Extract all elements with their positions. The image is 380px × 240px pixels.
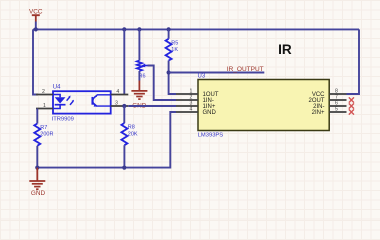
wire U3 VCC pin8 to rail xyxy=(347,29,360,94)
LED light arrows xyxy=(67,97,73,105)
power VCC xyxy=(29,8,43,29)
svg-text:GND: GND xyxy=(203,110,217,116)
no-connect x pin 5 xyxy=(349,109,354,114)
node IR net junction xyxy=(167,70,171,74)
svg-text:R8: R8 xyxy=(128,125,135,131)
wire U4 pin1 to R7 xyxy=(36,109,38,124)
node R8 top junction xyxy=(122,104,126,108)
svg-text:1: 1 xyxy=(43,103,46,109)
text IR title xyxy=(278,42,292,57)
U4 pin 1 xyxy=(36,103,53,109)
svg-text:2: 2 xyxy=(42,89,45,95)
svg-text:3: 3 xyxy=(115,100,118,106)
optocoupler U4 xyxy=(52,85,111,123)
U3 pin 1 xyxy=(176,88,198,94)
node rail junction pin4 riser xyxy=(122,27,126,31)
wire rail to R5 xyxy=(168,29,170,38)
svg-text:20K: 20K xyxy=(128,131,138,137)
wire U4 pin3 to 1IN+ xyxy=(128,105,176,107)
svg-text:5: 5 xyxy=(335,106,338,112)
svg-text:200R: 200R xyxy=(40,132,53,138)
svg-text:1K: 1K xyxy=(171,47,178,53)
wire rail to U4 pin4 xyxy=(123,29,125,94)
LED inside U4 xyxy=(53,95,60,98)
resistor R8 xyxy=(121,106,138,145)
wire R6 to GND xyxy=(138,71,140,81)
U3 pin 4 xyxy=(176,106,198,112)
U3 pin 2 xyxy=(176,94,198,100)
net label IR_OUTPUT xyxy=(227,66,264,73)
svg-text:R5: R5 xyxy=(171,40,178,46)
node R8 bottom junction xyxy=(122,166,126,170)
wire IR_OUTPUT stub xyxy=(169,72,265,74)
svg-text:R7: R7 xyxy=(40,125,47,131)
op-amp U3 LM393PS xyxy=(198,73,330,138)
wire rail to R6 xyxy=(138,29,140,60)
U3 pin 3 xyxy=(176,100,198,106)
svg-text:4: 4 xyxy=(190,106,193,112)
wire VCC rail top xyxy=(33,28,359,30)
svg-text:LM393PS: LM393PS xyxy=(198,132,224,138)
node rail junction R6 xyxy=(137,27,141,31)
wire R6 wiper to 1IN- xyxy=(148,66,177,101)
U3 pin 8 xyxy=(329,88,346,94)
svg-text:U3: U3 xyxy=(198,73,206,79)
U4 pin 4 xyxy=(111,89,129,95)
ground GND under R6 xyxy=(131,81,147,110)
U4 pin 2 xyxy=(36,89,53,95)
ground GND bottom left xyxy=(29,168,45,197)
resistor R5 xyxy=(166,39,179,61)
U3 pin 6 xyxy=(329,100,346,106)
node bottom left junction xyxy=(35,166,39,170)
svg-text:2IN+: 2IN+ xyxy=(312,110,325,116)
U3 pin 7 xyxy=(329,94,346,100)
wire R7 to bottom rail xyxy=(36,146,38,168)
no-connect x pin 7 xyxy=(349,97,354,102)
svg-text:GND: GND xyxy=(31,190,46,197)
U3 pin 5 xyxy=(329,106,346,112)
svg-text:IR: IR xyxy=(278,42,292,57)
wire rail to U4 pin2 xyxy=(33,29,38,94)
phototransistor inside U4 xyxy=(91,97,93,105)
node rail junction R5 xyxy=(167,27,171,31)
no-connect x pin 6 xyxy=(349,103,354,108)
svg-text:4: 4 xyxy=(116,89,119,95)
resistor R7 xyxy=(34,124,53,146)
U4 pin 3 xyxy=(111,100,129,106)
wire bottom ground rail xyxy=(37,112,176,168)
svg-text:IR_OUTPUT: IR_OUTPUT xyxy=(227,66,264,73)
node VCC junction xyxy=(34,27,38,31)
wire R8 to bottom rail xyxy=(123,145,125,167)
wire R5 to 1OUT xyxy=(169,61,176,95)
svg-text:ITR9909: ITR9909 xyxy=(52,116,74,122)
svg-text:U4: U4 xyxy=(53,85,61,91)
potentiometer R6 xyxy=(137,61,148,80)
